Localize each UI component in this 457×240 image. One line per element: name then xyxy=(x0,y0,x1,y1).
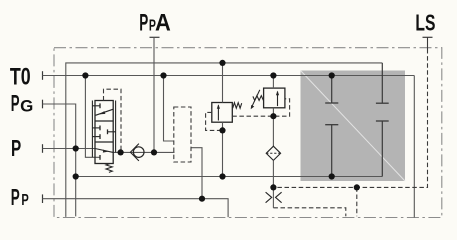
port PG tick xyxy=(42,100,44,109)
RV1 riser to top line xyxy=(222,63,224,103)
node top line/RV1 xyxy=(219,60,225,66)
port PpA tick xyxy=(150,36,160,38)
port Pp tick xyxy=(42,194,44,203)
valve top position: flow arrow xyxy=(96,109,114,115)
wire PG line xyxy=(43,104,76,216)
wire PpA drop to check-valve outlet xyxy=(153,37,155,152)
option enclosure (dashed box) xyxy=(174,107,191,162)
check valve CV1 seat xyxy=(130,144,139,161)
blocked port lower-right in plate xyxy=(376,121,389,177)
node P gallery/plate xyxy=(329,173,335,179)
wire valve outlet A to option enclosure xyxy=(113,151,174,153)
port T0 tick xyxy=(42,71,44,80)
node LS/drain xyxy=(354,184,360,190)
svg-text:P: P xyxy=(11,184,20,210)
node T0/RV2 xyxy=(270,72,276,78)
blocked port upper-left in plate xyxy=(325,76,338,104)
node valve outlet xyxy=(118,149,124,155)
RV1 bottom line to P gallery xyxy=(222,122,224,176)
RV2 riser to T0 line xyxy=(272,76,274,89)
valve mid position: closed ports xyxy=(92,126,115,140)
valve bottom position: flow arrow P to A xyxy=(95,149,113,153)
port LS tick xyxy=(423,36,433,38)
wire filter to LS gallery xyxy=(272,160,274,207)
wire P/PG to gray block bottom line xyxy=(76,176,383,178)
valve right rail xyxy=(115,101,117,153)
node P gallery/RV1 xyxy=(219,173,225,179)
RV2 bottom line xyxy=(272,108,274,146)
LS pilot line (dashed) xyxy=(273,49,427,187)
svg-text:P: P xyxy=(21,192,28,209)
reducing valve RV1 body xyxy=(212,103,233,123)
port P tick xyxy=(42,144,44,153)
svg-text:T0: T0 xyxy=(10,64,31,91)
wire T0 branch to option enclosure xyxy=(164,76,174,142)
quick coupling (plugged test point) xyxy=(266,192,282,203)
node T0/option xyxy=(160,72,166,78)
relief valve RV2 body xyxy=(264,88,285,108)
filter F1 xyxy=(266,146,280,160)
blocked port upper-right in plate xyxy=(376,63,389,103)
valve pilot line (dashed) xyxy=(104,89,122,152)
RV2 internal flow arrow xyxy=(276,91,279,107)
svg-text:A: A xyxy=(155,10,171,37)
wire T0 main line xyxy=(43,75,415,77)
svg-text:G: G xyxy=(20,97,33,115)
port PG label xyxy=(11,90,34,116)
directional valve U1 body xyxy=(95,101,113,164)
RV2 adjustable spring xyxy=(251,90,264,110)
port Pp label xyxy=(11,184,29,210)
svg-text:P: P xyxy=(11,135,21,161)
check valve CV1 ball xyxy=(133,147,144,158)
RV1 spring xyxy=(233,103,242,109)
RV1 internal flow arrow xyxy=(217,104,220,120)
wire T0 branch down to valve xyxy=(85,76,100,158)
blocked port lower-left in plate xyxy=(325,125,338,177)
valve spring xyxy=(106,164,112,173)
RV1 pilot loop (dashed) xyxy=(206,112,223,130)
svg-text:P: P xyxy=(139,10,148,37)
wire Pp line xyxy=(43,199,229,217)
valve left rail xyxy=(91,101,93,158)
node check valve outlet/PpA xyxy=(151,149,157,155)
enclosure boundary (dash-dot) xyxy=(54,48,442,218)
svg-text:LS: LS xyxy=(415,10,435,36)
wire LS stub xyxy=(427,37,429,49)
RV1/RV2 pilot line (dashed) xyxy=(232,99,289,116)
node LS/filter xyxy=(270,184,276,190)
node T0/valve xyxy=(82,72,88,78)
port PpA label xyxy=(139,10,171,37)
coupling drain line (dashed) xyxy=(273,208,345,217)
node P/PG xyxy=(73,145,79,151)
wire T0 right edge down xyxy=(413,76,415,218)
wire inner top line xyxy=(66,63,383,217)
LS branch drain (dashed) xyxy=(356,187,358,216)
node T0/plate xyxy=(329,72,335,78)
node RV2 pilot xyxy=(270,113,276,119)
node Pp riser xyxy=(199,196,205,202)
svg-text:P: P xyxy=(11,90,20,116)
node P gallery left xyxy=(73,173,79,179)
manifold plate (gray block) xyxy=(301,71,406,182)
valve bottom position: closed port bar xyxy=(99,155,101,160)
node RV1 pilot xyxy=(219,127,225,133)
wire P line xyxy=(43,148,96,150)
valve top position: closed port xyxy=(92,103,100,108)
wire option enclosure to Pp line riser xyxy=(191,148,202,199)
